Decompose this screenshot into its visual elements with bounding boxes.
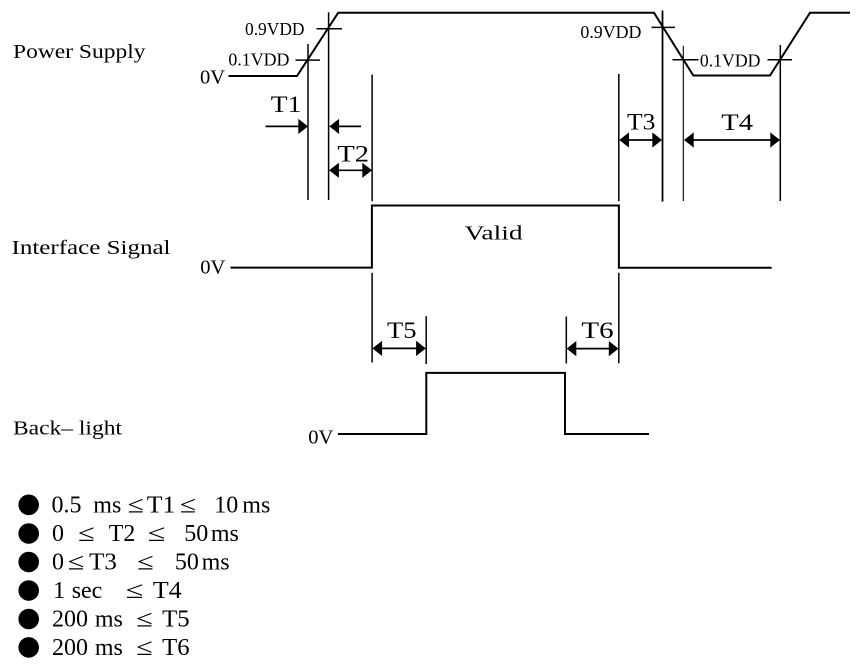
svg-text:0≤T3≤50ms: 0≤T3≤50ms bbox=[52, 549, 230, 575]
0.1VDD tick left bbox=[296, 59, 321, 61]
marker line L5 (0.9VDD fall crossing) bbox=[662, 11, 664, 202]
svg-text:0.1VDD: 0.1VDD bbox=[228, 49, 289, 69]
bullet 3 bbox=[18, 552, 39, 573]
T4 double arrow bbox=[684, 132, 780, 147]
svg-text:Interface Signal: Interface Signal bbox=[12, 237, 171, 259]
svg-text:T2: T2 bbox=[337, 142, 369, 167]
power supply waveform bbox=[229, 13, 851, 76]
marker line L4 upper (interface fall reference) bbox=[618, 74, 620, 201]
bullet 1 bbox=[18, 495, 39, 516]
svg-text:T6: T6 bbox=[581, 318, 613, 343]
0.9VDD tick right bbox=[652, 26, 676, 28]
T6 double arrow bbox=[567, 341, 619, 356]
T1 arrow right (points left) bbox=[329, 119, 361, 134]
marker line L1 (0.1VDD rise crossing) bbox=[307, 44, 309, 200]
svg-text:T5: T5 bbox=[387, 318, 417, 343]
0.9VDD tick left bbox=[317, 28, 343, 30]
marker line T5 right bbox=[425, 316, 427, 364]
svg-text:T4: T4 bbox=[721, 110, 753, 135]
svg-text:0V: 0V bbox=[308, 427, 333, 449]
marker line L2 (0.9VDD rise crossing) bbox=[328, 12, 330, 200]
svg-text:Power Supply: Power Supply bbox=[13, 41, 146, 63]
svg-text:T1: T1 bbox=[271, 92, 302, 117]
svg-text:T3: T3 bbox=[627, 110, 655, 135]
marker line T6 left bbox=[565, 317, 567, 364]
svg-text:200ms≤T5: 200ms≤T5 bbox=[52, 606, 190, 632]
marker line L4 lower (T6 right) bbox=[618, 273, 620, 364]
0.1VDD tick right inner bbox=[673, 59, 699, 61]
0.1VDD tick right outer bbox=[768, 59, 793, 61]
marker line L6 (0.1VDD fall crossing) bbox=[682, 46, 684, 201]
T2 double arrow bbox=[329, 163, 372, 178]
svg-text:0.1VDD: 0.1VDD bbox=[700, 51, 761, 71]
svg-text:0.9VDD: 0.9VDD bbox=[245, 19, 305, 39]
svg-text:Valid: Valid bbox=[465, 223, 523, 245]
T5 double arrow bbox=[372, 341, 425, 356]
marker line L7 (0.1VDD rise2 crossing) bbox=[779, 45, 781, 201]
T1 arrow left (points right) bbox=[266, 119, 309, 134]
svg-text:200ms≤T6: 200ms≤T6 bbox=[52, 635, 190, 661]
bullet 2 bbox=[18, 523, 39, 544]
svg-text:0.9VDD: 0.9VDD bbox=[580, 22, 641, 42]
marker line L3 lower (T5 left) bbox=[371, 273, 373, 363]
svg-text:0V: 0V bbox=[200, 256, 225, 278]
svg-text:0V: 0V bbox=[200, 67, 225, 89]
bullet 5 bbox=[18, 609, 39, 630]
bullet 6 bbox=[18, 637, 39, 658]
backlight waveform bbox=[338, 373, 649, 434]
bullet 4 bbox=[18, 580, 39, 601]
svg-text:Back– light: Back– light bbox=[13, 418, 122, 440]
marker line L3 upper (interface rise reference) bbox=[371, 75, 373, 202]
interface signal waveform bbox=[231, 206, 772, 268]
T3 double arrow bbox=[619, 132, 662, 147]
